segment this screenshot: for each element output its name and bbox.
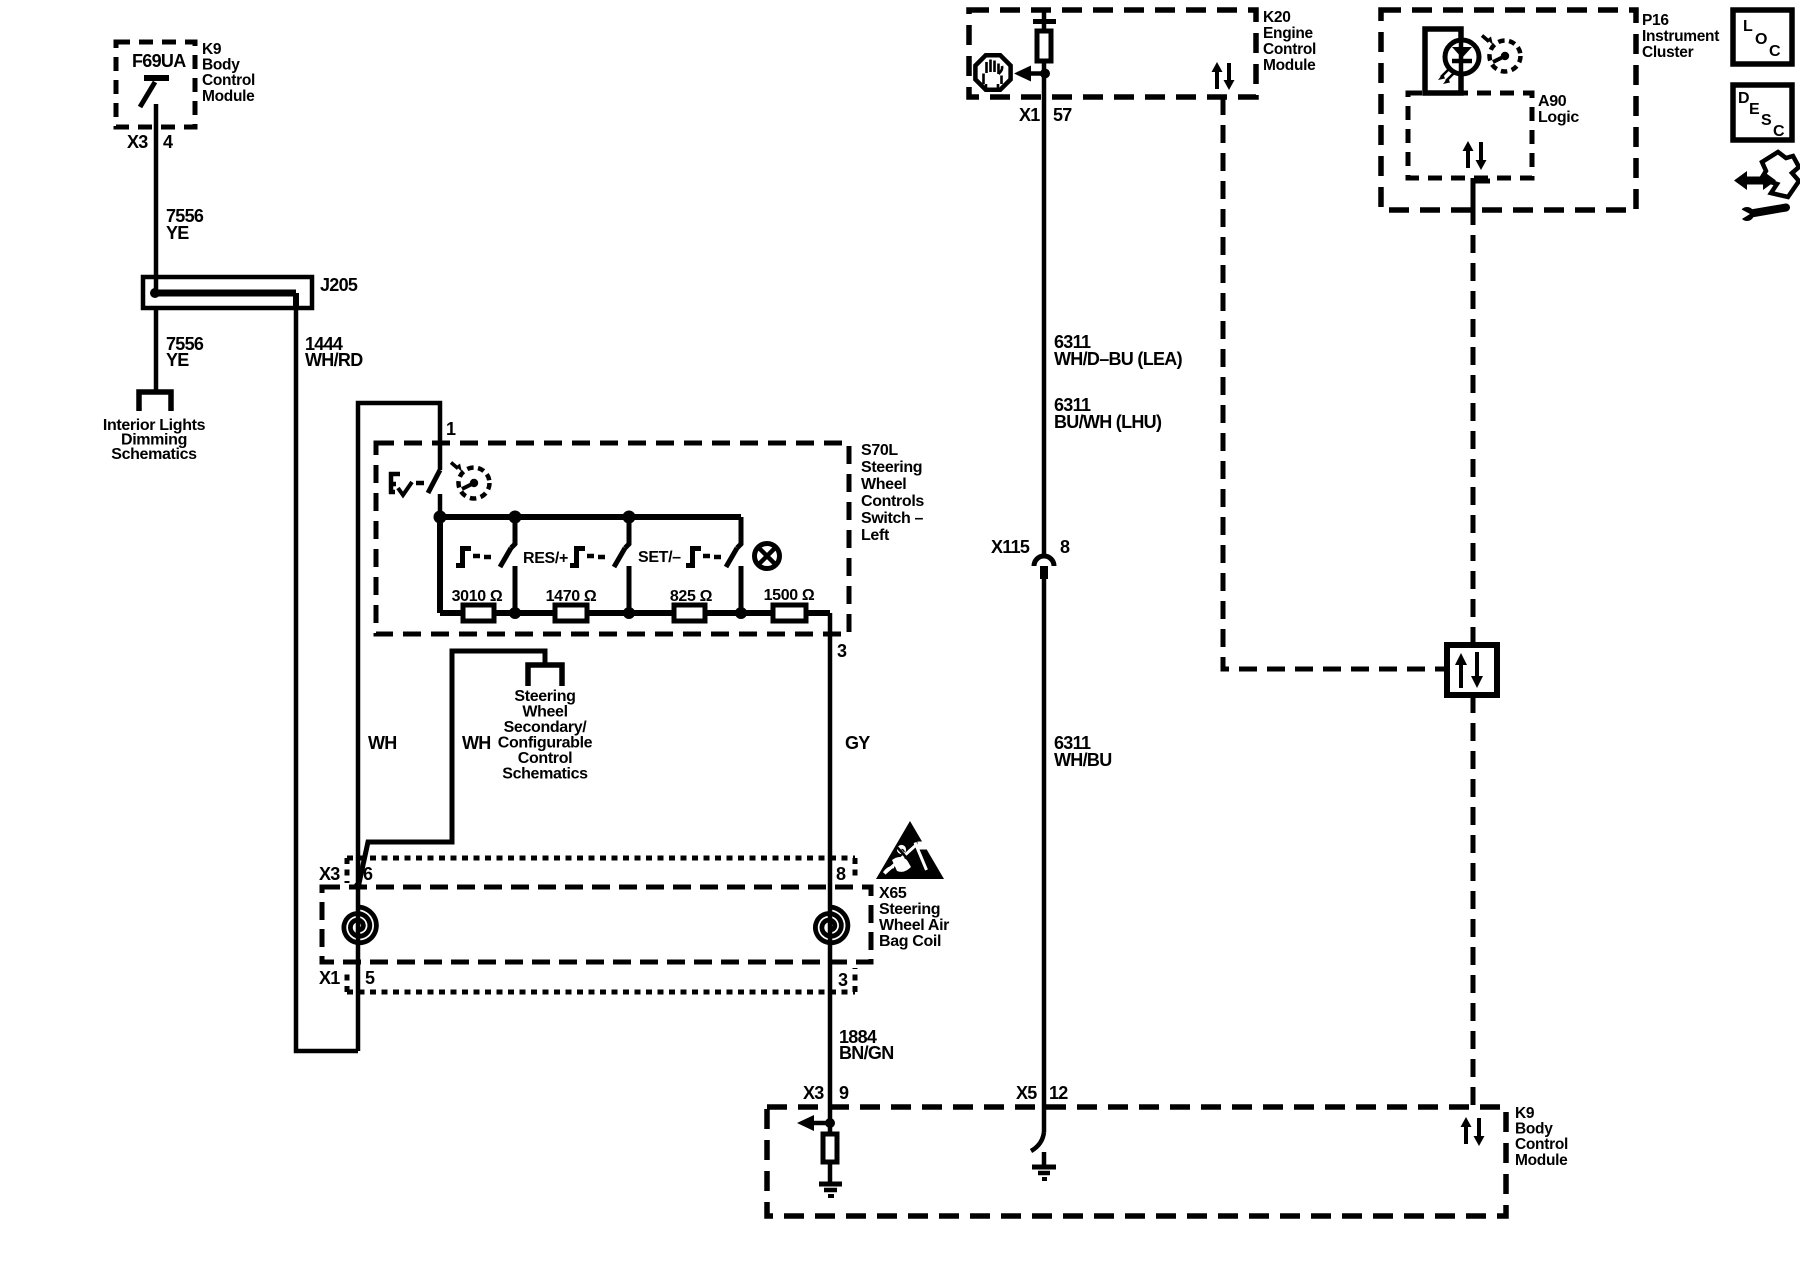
stop lamp icon (octagon with hand) [975, 55, 1010, 89]
gateway box with arrows [1447, 645, 1497, 695]
diagnostic icon (arrows and wrench) [1734, 152, 1799, 222]
svg-text:57: 57 [1053, 105, 1072, 125]
svg-text:825 Ω: 825 Ω [670, 588, 713, 605]
warning triangle (air bag caution) [876, 821, 944, 879]
gauge icon (cluster) [1490, 41, 1521, 72]
svg-text:1500 Ω: 1500 Ω [764, 587, 815, 604]
svg-text:RES/+: RES/+ [523, 550, 568, 567]
splice pack J205 [143, 277, 312, 308]
svg-text:6: 6 [363, 864, 373, 884]
svg-text:X1: X1 [319, 968, 340, 988]
svg-text:12: 12 [1049, 1083, 1068, 1103]
connector X3 row (air bag coil) [347, 856, 855, 861]
svg-text:X3: X3 [127, 132, 148, 152]
wire 7556 YE upper [154, 127, 159, 278]
svg-text:4: 4 [163, 132, 173, 152]
off-page connector steering wheel secondary [528, 665, 562, 686]
K9 body control module box (bottom) [767, 1107, 1506, 1216]
junction (WH merge) [354, 882, 362, 890]
BCM internal resistor [828, 1107, 833, 1134]
svg-text:C: C [1773, 123, 1785, 140]
DESC box [1733, 85, 1792, 140]
X65 steering wheel air bag coil box [322, 887, 871, 962]
cruise on/off switch [428, 470, 440, 493]
svg-text:X115: X115 [991, 537, 1030, 557]
K20 engine control module box [969, 10, 1256, 97]
serial data double arrow (A90) [1466, 149, 1470, 168]
svg-text:X1: X1 [1019, 105, 1040, 125]
svg-text:D: D [1738, 90, 1749, 107]
ground (BCM right) [1042, 1152, 1047, 1167]
svg-text:X3: X3 [803, 1083, 824, 1103]
fuse F69UA box [116, 42, 195, 127]
fuse F69UA element [144, 75, 169, 81]
svg-text:WH: WH [462, 733, 491, 753]
A90 logic box [1408, 93, 1532, 178]
svg-text:X3: X3 [319, 864, 340, 884]
indicator housing [1425, 29, 1461, 93]
K20 internal resistor [1037, 31, 1051, 61]
wire 6311 upper [1042, 97, 1047, 556]
resistor 1500 ohm [773, 605, 806, 621]
LED indicator [1445, 40, 1479, 74]
LOC box [1733, 10, 1792, 64]
air bag coil left [344, 907, 377, 943]
svg-text:1470 Ω: 1470 Ω [546, 588, 597, 605]
svg-text:8: 8 [836, 864, 846, 884]
resistor 1470 ohm [555, 605, 587, 621]
svg-text:L: L [1743, 18, 1753, 35]
svg-text:X5: X5 [1016, 1083, 1037, 1103]
wire 6311 WH/BU lower [1042, 579, 1047, 1107]
gauge icon (cruise switch) [459, 468, 490, 499]
resistor ladder bus [440, 514, 741, 520]
serial data double arrow (K9) [1464, 1125, 1468, 1144]
resistor 825 ohm [674, 605, 705, 621]
A90 pin stub [1471, 178, 1476, 218]
ground (BCM left) [819, 1182, 842, 1187]
air bag coil right [815, 907, 848, 943]
svg-text:3010 Ω: 3010 Ω [452, 588, 503, 605]
svg-text:O: O [1755, 31, 1767, 48]
dashed serial data link gateway to K9 [1471, 695, 1476, 1107]
off-page connector Interior Lights [139, 392, 171, 411]
svg-text:C: C [1769, 43, 1781, 60]
switch cell 2 (RES/+ 1470) [625, 517, 629, 548]
svg-text:J205: J205 [320, 275, 358, 295]
dashed serial data link gateway to A90 [1471, 218, 1476, 645]
P16 instrument cluster box [1381, 10, 1636, 210]
ladder bottom line [440, 610, 830, 616]
svg-text:3: 3 [837, 641, 847, 661]
svg-text:WH: WH [368, 733, 397, 753]
serial data double arrow (K20) [1215, 70, 1219, 89]
wire WH to S70L pin 1 [358, 403, 440, 1051]
dashed serial data link K20 to gateway [1223, 97, 1444, 669]
svg-text:5: 5 [365, 968, 375, 988]
svg-text:SET/–: SET/– [638, 549, 681, 566]
BCM internal switch to ground [1042, 1107, 1047, 1132]
wire WH steering wheel secondary [358, 651, 545, 888]
resistor 3010 ohm [463, 605, 494, 621]
wire 1444 WH/RD [296, 308, 358, 1051]
svg-text:1: 1 [446, 419, 456, 439]
switch cell 3 (SET/- 825) [737, 517, 741, 548]
svg-text:S: S [1761, 112, 1772, 129]
svg-text:E: E [1749, 101, 1760, 118]
ladder left drop wire [437, 517, 443, 613]
S70L steering wheel controls switch box [376, 443, 849, 634]
wire GY [828, 613, 833, 1107]
svg-text:8: 8 [1060, 537, 1070, 557]
wire 7556 YE lower [154, 308, 159, 391]
svg-text:9: 9 [839, 1083, 849, 1103]
switch cell 1 (3010) [511, 517, 515, 548]
connector X1 row (air bag coil) [347, 990, 855, 995]
BCM input arrow [804, 1121, 830, 1126]
K20 junction and arrow to stop icon [1040, 69, 1050, 79]
lamp symbol [755, 544, 780, 569]
svg-text:3: 3 [838, 970, 848, 990]
svg-text:GY: GY [845, 733, 870, 753]
K20 power feed symbol [1042, 10, 1047, 19]
svg-text:F69UA: F69UA [132, 51, 186, 71]
